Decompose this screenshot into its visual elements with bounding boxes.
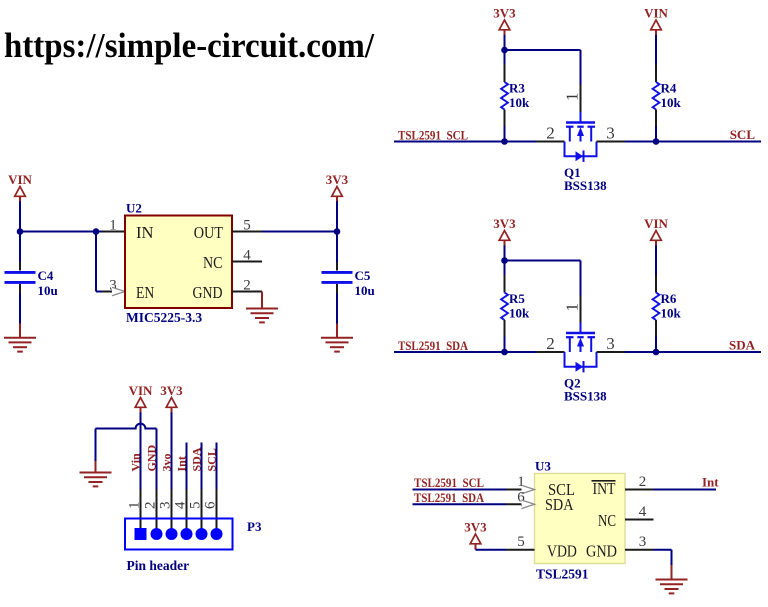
- svg-text:3: 3: [639, 534, 647, 550]
- svg-text:R6: R6: [661, 291, 677, 306]
- svg-text:3vo: 3vo: [160, 454, 174, 472]
- svg-text:3V3: 3V3: [493, 6, 516, 21]
- svg-text:IN: IN: [136, 223, 154, 242]
- net label Int at header: [175, 456, 189, 471]
- net label SDA at header: [190, 447, 204, 471]
- svg-text:3: 3: [606, 334, 615, 353]
- wire from junction to C4: [19, 232, 21, 271]
- node VIN rail junction at C4: [17, 228, 24, 235]
- power port VIN (R6 pull-up): [644, 216, 668, 246]
- svg-text:10u: 10u: [355, 283, 375, 298]
- node rail junction R6: [653, 349, 660, 356]
- ground at U3 pin 3: [656, 565, 688, 593]
- power port 3V3 (Q1 gate pull-up): [493, 6, 516, 36]
- net label SDA: [729, 338, 756, 353]
- svg-text:https://simple-circuit.com/: https://simple-circuit.com/: [4, 26, 375, 65]
- wire TSL2591_SDA to U3 pin 6: [413, 489, 535, 508]
- wire 3V3 down to junction: [504, 245, 506, 260]
- U3 pin 3 GND wire: [625, 534, 672, 565]
- svg-text:TSL2591: TSL2591: [536, 567, 589, 582]
- transistor Q2 BSS138: [564, 333, 607, 404]
- wire rail left (TSL2591_SDA): [394, 334, 565, 353]
- pin number 2 at header: [143, 502, 159, 510]
- wire header pin 3 3vo: [171, 412, 173, 530]
- svg-text:MIC5225-3.3: MIC5225-3.3: [126, 310, 202, 325]
- power port VIN at header: [129, 383, 153, 413]
- U2 pin 5 OUT wire: [232, 218, 337, 234]
- svg-text:SCL: SCL: [205, 448, 219, 471]
- wire TSL2591_SCL to U3 pin 1: [413, 474, 535, 494]
- svg-text:Pin header: Pin header: [127, 558, 190, 573]
- svg-text:TSL2591 SCL: TSL2591 SCL: [398, 128, 468, 143]
- svg-text:10k: 10k: [509, 95, 530, 110]
- wire header pin 5 SDA: [201, 443, 203, 531]
- svg-text:C4: C4: [38, 268, 54, 283]
- ground below C4: [4, 324, 36, 352]
- svg-text:3V3: 3V3: [493, 216, 516, 231]
- svg-text:1: 1: [563, 93, 582, 102]
- capacitor C5 10u: [322, 268, 375, 298]
- wire from C5 to ground: [336, 284, 338, 324]
- net label TSL2591_SDA: [398, 338, 469, 353]
- wire 3V3 to U3 pin 5 VDD: [476, 534, 535, 550]
- power port 3V3 (Q2 gate pull-up): [493, 216, 516, 246]
- wire VIN to rail: [19, 201, 21, 231]
- svg-text:VIN: VIN: [129, 383, 153, 398]
- wire 3V3 down to junction: [504, 35, 506, 50]
- wire R6 to rail: [655, 320, 657, 352]
- net label SCL at header: [205, 448, 219, 471]
- power port VIN (regulator input): [8, 172, 32, 202]
- pin number 6 at header: [203, 501, 219, 509]
- net label TSL2591_SCL: [398, 128, 468, 143]
- svg-text:1: 1: [127, 502, 143, 510]
- svg-text:1: 1: [109, 218, 117, 234]
- power port VIN (R4 pull-up): [644, 6, 668, 36]
- net label Int: [702, 475, 719, 490]
- svg-text:5: 5: [188, 502, 204, 510]
- svg-text:NC: NC: [598, 511, 616, 530]
- U2 pin 4 NC stub: [232, 248, 262, 264]
- svg-text:10k: 10k: [661, 95, 682, 110]
- U3 pin 2 INT wire: [625, 474, 716, 490]
- node rail junction R4: [653, 138, 660, 145]
- wire to U2 pin 1: [96, 218, 125, 234]
- svg-text:VIN: VIN: [644, 6, 668, 21]
- svg-text:3V3: 3V3: [326, 172, 349, 187]
- wire junction to Q2 gate: [505, 261, 582, 334]
- svg-text:2: 2: [546, 334, 555, 353]
- svg-text:2: 2: [546, 124, 555, 143]
- node 3V3 junction Q2: [501, 257, 508, 264]
- wire junction to Q1 gate: [505, 50, 582, 123]
- wire header pin 2 GND with hop over Vin: [96, 424, 157, 530]
- node junction to EN branch: [93, 228, 100, 235]
- wire VIN rail: [20, 231, 96, 233]
- op-amp U2 MIC5225-3.3 regulator body: [125, 201, 232, 326]
- net label GND at header: [145, 445, 159, 472]
- wire resistor R5 branch: [504, 261, 506, 293]
- wire rail right (SDA): [597, 334, 762, 353]
- svg-text:BSS138: BSS138: [564, 389, 607, 404]
- net label TSL2591_SDA at U3: [414, 490, 485, 505]
- svg-text:2: 2: [143, 502, 159, 510]
- wire rail right (SCL): [597, 124, 762, 143]
- svg-text:3V3: 3V3: [464, 520, 487, 535]
- svg-text:1: 1: [563, 303, 582, 312]
- pin number 3 at header: [158, 502, 174, 510]
- svg-text:U3: U3: [535, 459, 551, 474]
- svg-text:5: 5: [243, 218, 251, 234]
- svg-text:GND: GND: [586, 541, 617, 560]
- svg-text:3: 3: [606, 124, 615, 143]
- svg-text:R4: R4: [661, 81, 677, 96]
- pad 1 square: [135, 528, 147, 540]
- wire resistor R3 branch: [504, 50, 506, 82]
- pad 5 round: [196, 528, 208, 540]
- svg-text:TSL2591 SCL: TSL2591 SCL: [414, 475, 484, 490]
- resistor R6 10k: [653, 291, 682, 321]
- power port 3V3 at U3 VDD: [464, 520, 487, 550]
- wire VIN to resistor R6: [655, 245, 657, 292]
- ground below C5: [321, 324, 353, 352]
- ground at U2 pin 2: [246, 292, 278, 323]
- U3 pin 4 NC stub: [625, 504, 654, 520]
- power port 3V3 (regulator output): [326, 172, 349, 202]
- pad 6 round: [211, 528, 223, 540]
- svg-text:10k: 10k: [509, 306, 530, 321]
- wire R4 to rail: [655, 110, 657, 142]
- net label Vin at header: [129, 453, 143, 472]
- resistor R4 10k: [653, 81, 682, 111]
- pin number 1 at header: [127, 502, 143, 510]
- svg-text:C5: C5: [355, 268, 371, 283]
- svg-text:BSS138: BSS138: [564, 178, 607, 193]
- resistor R5 10k: [501, 291, 530, 321]
- pin number 4 at header: [173, 501, 189, 509]
- power port 3V3 at header: [160, 383, 183, 413]
- svg-text:U2: U2: [126, 201, 142, 216]
- pad 4 round: [181, 528, 193, 540]
- node rail junction R3: [501, 138, 508, 145]
- pad 2 round: [151, 528, 163, 540]
- svg-text:4: 4: [243, 248, 251, 264]
- svg-text:GND: GND: [145, 445, 159, 472]
- svg-text:INT: INT: [593, 479, 616, 498]
- svg-text:TSL2591 SDA: TSL2591 SDA: [414, 490, 485, 505]
- svg-text:10u: 10u: [38, 283, 58, 298]
- svg-text:SDA: SDA: [190, 447, 204, 471]
- svg-text:GND: GND: [193, 283, 223, 302]
- wire header pin 1 Vin: [140, 412, 142, 530]
- transistor Q1 BSS138: [564, 123, 607, 194]
- wire R3 to rail: [504, 110, 506, 142]
- wire R5 to rail: [504, 320, 506, 352]
- svg-text:NC: NC: [203, 253, 223, 272]
- svg-text:Int: Int: [175, 456, 189, 471]
- pin number 5 at header: [188, 502, 204, 510]
- svg-text:SDA: SDA: [545, 495, 574, 514]
- net label SCL: [730, 127, 756, 142]
- wire rail left (TSL2591_SCL): [394, 124, 565, 143]
- svg-text:Vin: Vin: [129, 453, 143, 472]
- svg-text:3: 3: [158, 502, 174, 510]
- svg-text:10k: 10k: [661, 306, 682, 321]
- svg-text:5: 5: [517, 534, 525, 550]
- op-amp U3 TSL2591 sensor body: [535, 459, 626, 582]
- svg-text:EN: EN: [136, 283, 154, 302]
- node rail junction R5: [501, 349, 508, 356]
- net label 3vo at header: [160, 454, 174, 472]
- title text simple-circuit.com: [4, 26, 375, 65]
- svg-text:VDD: VDD: [547, 541, 577, 560]
- connector P3 pin header body: [125, 519, 262, 574]
- svg-text:VIN: VIN: [8, 172, 32, 187]
- svg-text:P3: P3: [247, 519, 262, 534]
- svg-text:3V3: 3V3: [160, 383, 183, 398]
- svg-text:2: 2: [243, 278, 251, 294]
- pad 3 round: [166, 528, 178, 540]
- wire header pin 6 SCL: [216, 443, 218, 531]
- net label TSL2591_SCL at U3: [414, 475, 484, 490]
- svg-text:VIN: VIN: [644, 216, 668, 231]
- svg-text:R5: R5: [509, 291, 525, 306]
- node 3V3 junction Q1: [501, 47, 508, 54]
- svg-text:R3: R3: [509, 81, 525, 96]
- wire from junction to C5: [336, 232, 338, 271]
- svg-text:SDA: SDA: [729, 338, 756, 353]
- wire EN branch: [96, 232, 125, 296]
- svg-text:TSL2591 SDA: TSL2591 SDA: [398, 338, 469, 353]
- ground at header: [80, 461, 112, 486]
- resistor R3 10k: [501, 81, 530, 111]
- svg-text:OUT: OUT: [194, 223, 223, 242]
- wire header pin 4 Int: [186, 443, 188, 531]
- wire VIN to resistor R4: [655, 35, 657, 82]
- svg-text:4: 4: [639, 504, 647, 520]
- wire 3V3 to OUT rail: [336, 201, 338, 231]
- wire from C4 to ground: [19, 284, 21, 324]
- svg-text:Int: Int: [702, 475, 719, 490]
- svg-text:SCL: SCL: [730, 127, 756, 142]
- svg-text:6: 6: [203, 501, 219, 509]
- svg-text:4: 4: [173, 501, 189, 509]
- capacitor C4 10u: [5, 268, 58, 298]
- U2 pin 2 GND wire: [232, 278, 262, 294]
- svg-text:2: 2: [639, 474, 647, 490]
- node 3V3 rail junction at C5: [334, 228, 341, 235]
